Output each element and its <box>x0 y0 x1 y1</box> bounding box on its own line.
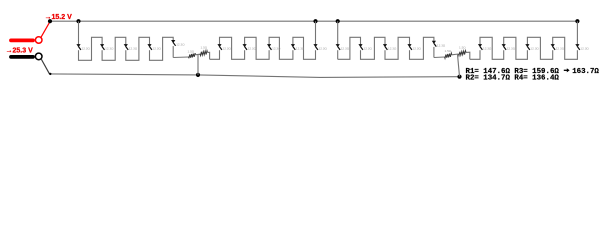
svg-text:12.3Ω: 12.3Ω <box>413 47 422 51</box>
red terminal post circle <box>35 37 42 44</box>
svg-text:12.3Ω: 12.3Ω <box>437 43 446 47</box>
svg-text:12.3Ω: 12.3Ω <box>364 47 373 51</box>
resistor chain C2 <box>384 47 386 50</box>
top rail wire (node T) <box>50 20 577 22</box>
wire H1 node <box>196 53 201 56</box>
resistor chain D3 <box>527 47 529 50</box>
svg-text:12.3Ω: 12.3Ω <box>580 47 589 51</box>
svg-text:12.3Ω: 12.3Ω <box>319 47 328 51</box>
resistor chain A2 <box>101 47 103 50</box>
tap wire down to bottom rail <box>197 55 199 75</box>
svg-text:12.3Ω: 12.3Ω <box>248 47 257 51</box>
resistor chain B4 <box>292 47 294 50</box>
svg-text:12.3Ω: 12.3Ω <box>556 47 565 51</box>
black terminal post circle <box>35 53 42 60</box>
svg-text:→25.3 V: →25.3 V <box>6 47 34 54</box>
bottom rail corner nub <box>49 73 51 75</box>
wire meander section A <box>79 21 174 60</box>
resistor chain tap1 (to rail) <box>315 47 317 50</box>
tap2 wire from rail <box>337 21 339 59</box>
red lead wire to top rail <box>41 22 50 38</box>
resistor chain A3 <box>125 47 127 50</box>
results arrow <box>564 69 568 71</box>
svg-text:12.3Ω: 12.3Ω <box>483 47 492 51</box>
junction dot chain start <box>76 19 80 23</box>
svg-text:12.3Ω: 12.3Ω <box>129 47 138 51</box>
resistor chain H1a (horizontal) <box>189 53 196 58</box>
svg-text:1.5Ω: 1.5Ω <box>188 50 195 54</box>
resistor chain B3 <box>268 47 270 50</box>
black lead wire to bottom rail <box>41 59 49 74</box>
resistor chain D5 (to rail) <box>577 47 579 50</box>
svg-text:1.5Ω: 1.5Ω <box>459 45 466 49</box>
bottom rail wire (node B) <box>50 74 460 78</box>
junction dot chain end <box>575 19 579 23</box>
junction dot bottom tap A <box>196 73 200 77</box>
svg-text:12.3Ω: 12.3Ω <box>507 47 516 51</box>
resistor chain A4 <box>149 47 151 50</box>
junction dot T-left <box>48 19 52 23</box>
svg-text:12.3Ω: 12.3Ω <box>341 47 350 51</box>
wire meander section D <box>470 21 578 59</box>
resistor chain B2 <box>244 47 246 50</box>
wire H2 node <box>452 53 459 56</box>
svg-text:12.3Ω: 12.3Ω <box>153 47 162 51</box>
resistor chain C3 <box>409 47 411 50</box>
resistor chain B1 <box>219 47 221 50</box>
junction dot tap1 <box>313 19 317 23</box>
resistor chain H1b (horizontal) <box>200 51 208 56</box>
wire out of H1 <box>208 52 210 59</box>
resistor chain D1 <box>479 47 481 50</box>
svg-text:12.3Ω: 12.3Ω <box>82 47 91 51</box>
resistor chain D4 <box>552 47 554 50</box>
svg-text:1.5Ω: 1.5Ω <box>201 46 208 50</box>
svg-text:12.3Ω: 12.3Ω <box>223 47 232 51</box>
wire into H1 <box>173 56 188 59</box>
junction dot bottom rail end <box>457 75 461 79</box>
svg-text:12.3Ω: 12.3Ω <box>105 47 114 51</box>
resistor chain H2a (horizontal) <box>445 53 452 58</box>
resistor chain A5 <box>172 43 174 46</box>
resistor chain C1 <box>360 47 362 50</box>
svg-text:12.3Ω: 12.3Ω <box>530 47 539 51</box>
svg-text:12.3Ω: 12.3Ω <box>388 47 397 51</box>
tap wire down to bottom rail end <box>458 54 460 76</box>
resistor chain H2b (horizontal) <box>459 51 467 56</box>
svg-text:12.3Ω: 12.3Ω <box>296 47 305 51</box>
wire into H2 <box>434 56 445 59</box>
junction dot tap2 <box>336 19 340 23</box>
svg-text:12.3Ω: 12.3Ω <box>176 43 185 47</box>
svg-text:163.7Ω: 163.7Ω <box>572 68 599 76</box>
resistor chain C4 <box>433 44 435 47</box>
svg-text:12.3Ω: 12.3Ω <box>272 47 281 51</box>
black terminal bar (- lead) <box>11 55 33 59</box>
svg-text:R2= 134.7Ω R4= 136.4Ω: R2= 134.7Ω R4= 136.4Ω <box>466 74 560 82</box>
svg-text:1.5Ω: 1.5Ω <box>445 49 452 53</box>
resistor chain tap2 <box>337 47 339 50</box>
wire out of H2 <box>466 52 470 59</box>
wire meander section B <box>210 21 316 59</box>
resistor chain D2 <box>503 47 505 50</box>
wire meander section B2 <box>338 37 434 59</box>
resistor chain A1 <box>78 47 80 50</box>
red terminal bar (+ lead) <box>11 39 33 43</box>
